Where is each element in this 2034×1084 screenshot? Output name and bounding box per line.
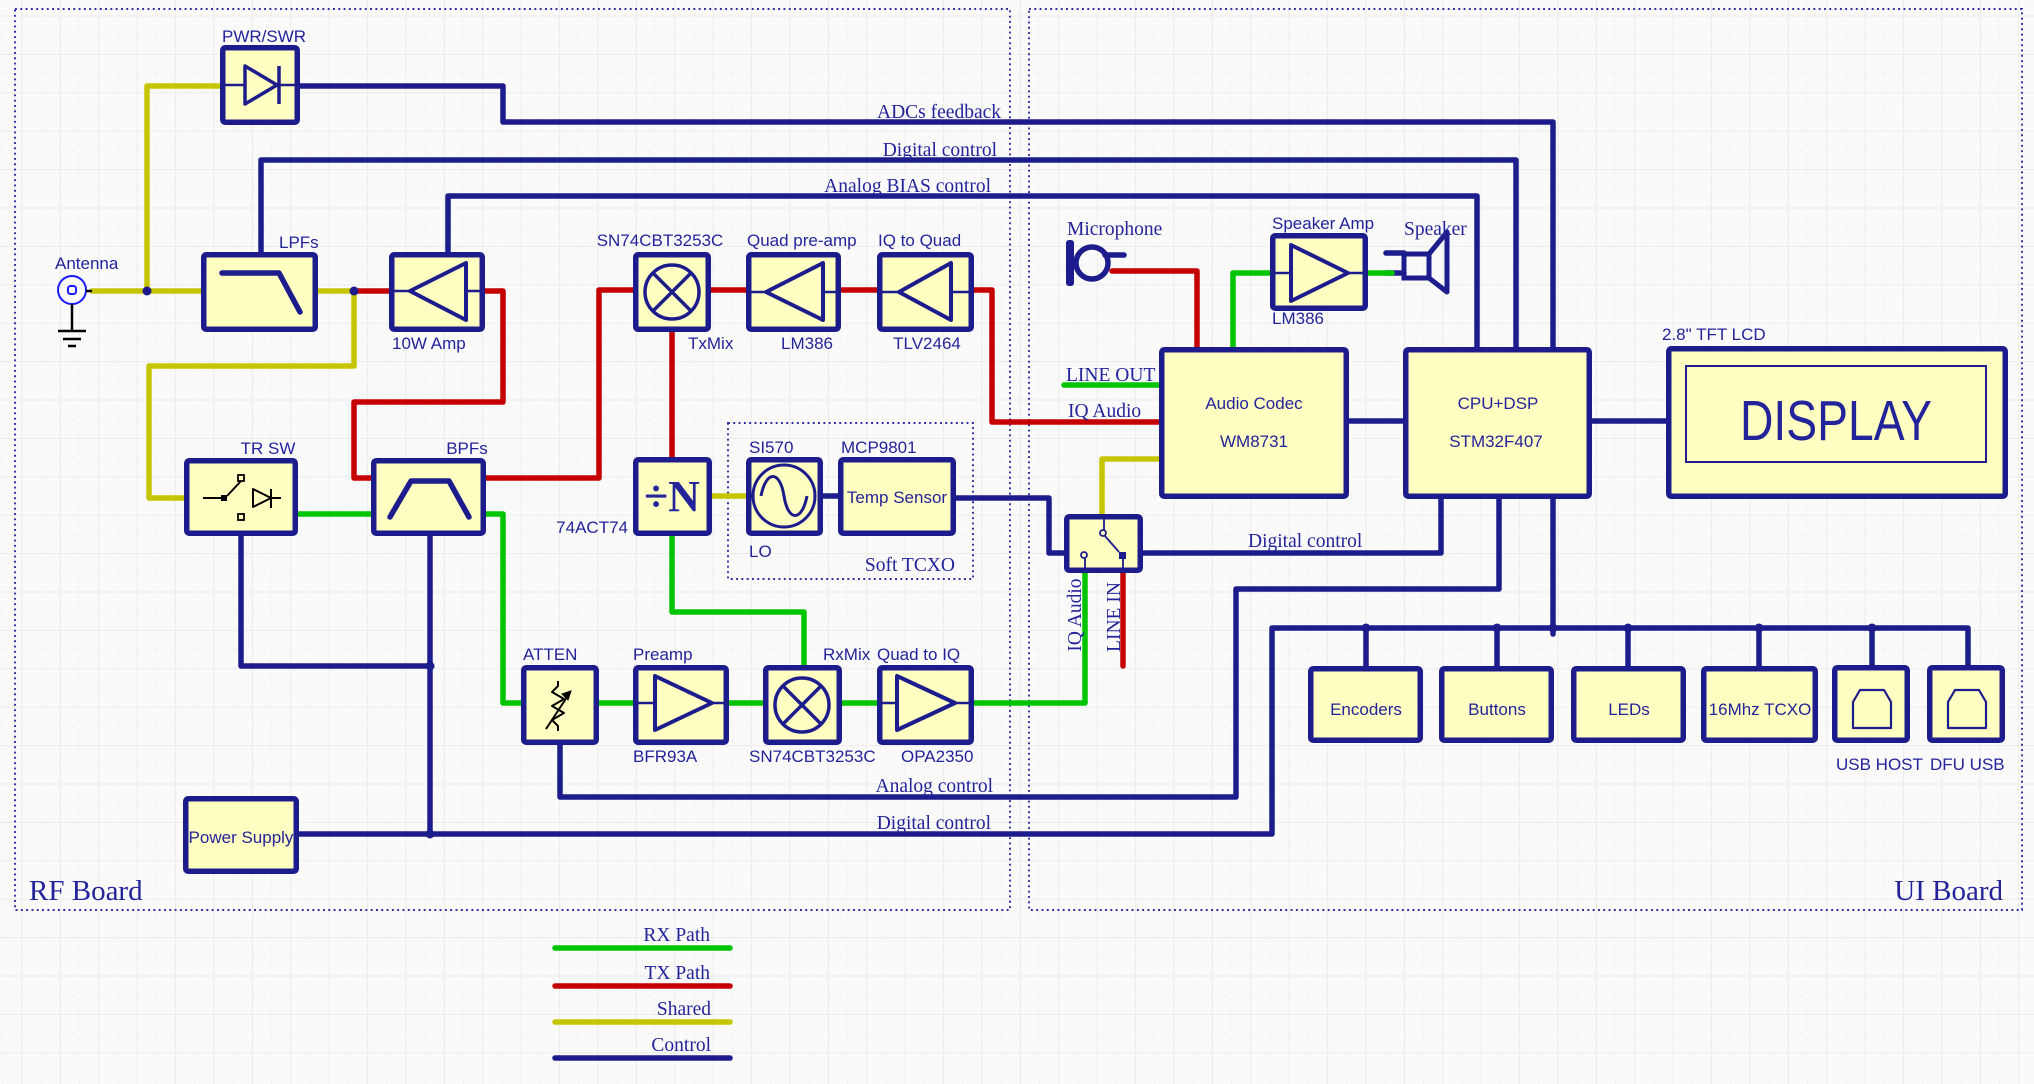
svg-text:WM8731: WM8731: [1220, 432, 1288, 451]
svg-text:16Mhz TCXO: 16Mhz TCXO: [1709, 700, 1812, 719]
svg-text:SN74CBT3253C: SN74CBT3253C: [597, 231, 724, 250]
svg-text:SN74CBT3253C: SN74CBT3253C: [749, 747, 876, 766]
svg-text:Analog control: Analog control: [875, 776, 993, 797]
svg-text:Quad pre-amp: Quad pre-amp: [747, 231, 857, 250]
svg-text:10W Amp: 10W Amp: [392, 334, 466, 353]
svg-text:LEDs: LEDs: [1608, 700, 1650, 719]
svg-text:Analog BIAS control: Analog BIAS control: [824, 176, 991, 197]
svg-text:74ACT74: 74ACT74: [556, 518, 628, 537]
svg-text:TLV2464: TLV2464: [893, 334, 961, 353]
svg-text:STM32F407: STM32F407: [1449, 432, 1543, 451]
svg-text:Encoders: Encoders: [1330, 700, 1402, 719]
svg-text:TR SW: TR SW: [241, 439, 296, 458]
svg-text:LO: LO: [749, 542, 772, 561]
svg-text:BPFs: BPFs: [446, 439, 488, 458]
svg-text:OPA2350: OPA2350: [901, 747, 973, 766]
svg-text:DFU USB: DFU USB: [1930, 755, 2005, 774]
svg-text:TX Path: TX Path: [644, 963, 710, 984]
svg-text:Control: Control: [651, 1035, 711, 1056]
svg-text:Soft TCXO: Soft TCXO: [865, 555, 955, 576]
svg-text:Microphone: Microphone: [1067, 219, 1162, 240]
svg-text:2.8" TFT LCD: 2.8" TFT LCD: [1662, 325, 1766, 344]
svg-text:Buttons: Buttons: [1468, 700, 1526, 719]
svg-text:IQ Audio: IQ Audio: [1065, 578, 1086, 651]
svg-text:RF Board: RF Board: [29, 875, 143, 907]
svg-text:LPFs: LPFs: [279, 233, 319, 252]
svg-text:RxMix: RxMix: [823, 645, 871, 664]
svg-text:LINE IN: LINE IN: [1104, 582, 1125, 652]
svg-text:Power Supply: Power Supply: [189, 828, 294, 847]
svg-text:Audio Codec: Audio Codec: [1205, 394, 1303, 413]
svg-text:ADCs feedback: ADCs feedback: [877, 102, 1001, 123]
svg-text:Temp Sensor: Temp Sensor: [847, 488, 947, 507]
svg-text:LM386: LM386: [781, 334, 833, 353]
svg-text:Digital control: Digital control: [1248, 531, 1363, 552]
svg-text:Shared: Shared: [657, 999, 711, 1020]
svg-text:DISPLAY: DISPLAY: [1740, 389, 1932, 453]
svg-text:PWR/SWR: PWR/SWR: [222, 27, 306, 46]
svg-text:Digital control: Digital control: [883, 140, 998, 161]
svg-text:LM386: LM386: [1272, 309, 1324, 328]
svg-text:TxMix: TxMix: [688, 334, 734, 353]
svg-text:Speaker Amp: Speaker Amp: [1272, 214, 1374, 233]
svg-text:CPU+DSP: CPU+DSP: [1458, 394, 1539, 413]
svg-text:UI Board: UI Board: [1894, 875, 2003, 907]
svg-text:Antenna: Antenna: [55, 254, 119, 273]
svg-text:LINE OUT: LINE OUT: [1066, 365, 1155, 386]
svg-text:Digital control: Digital control: [877, 813, 992, 834]
svg-text:BFR93A: BFR93A: [633, 747, 698, 766]
svg-text:RX Path: RX Path: [643, 925, 710, 946]
svg-text:Speaker: Speaker: [1404, 219, 1467, 240]
svg-text:IQ Audio: IQ Audio: [1068, 401, 1141, 422]
svg-text:ATTEN: ATTEN: [523, 645, 577, 664]
svg-text:SI570: SI570: [749, 438, 793, 457]
svg-text:IQ to Quad: IQ to Quad: [878, 231, 961, 250]
svg-text:Preamp: Preamp: [633, 645, 693, 664]
svg-text:MCP9801: MCP9801: [841, 438, 917, 457]
svg-text:÷N: ÷N: [644, 472, 700, 521]
svg-text:USB HOST: USB HOST: [1836, 755, 1923, 774]
svg-text:Quad to IQ: Quad to IQ: [877, 645, 960, 664]
